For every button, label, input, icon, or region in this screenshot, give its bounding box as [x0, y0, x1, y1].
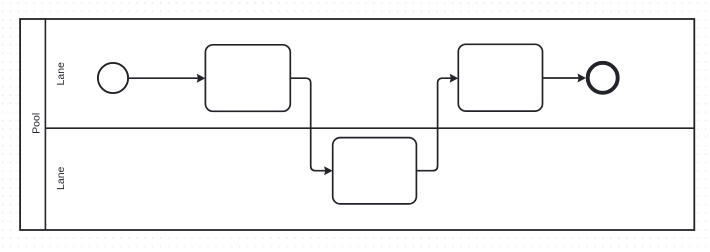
- start event: [98, 63, 128, 93]
- sequence flow T3->end: [543, 74, 587, 83]
- pool label band divider: [44, 19, 46, 230]
- task T1: [205, 45, 290, 112]
- task T3: [458, 44, 542, 111]
- sequence flow T1->T2: [290, 78, 332, 175]
- task T2: [333, 138, 417, 204]
- lane separator: [45, 127, 694, 129]
- sequence flow T2->T3: [416, 74, 458, 171]
- end event: [588, 63, 618, 93]
- sequence flow start->T1: [129, 74, 206, 83]
- svg-text:Pool: Pool: [30, 113, 42, 134]
- svg-text:Lane: Lane: [55, 166, 67, 190]
- svg-text:Lane: Lane: [55, 62, 67, 86]
- pool Pool: [20, 19, 694, 230]
